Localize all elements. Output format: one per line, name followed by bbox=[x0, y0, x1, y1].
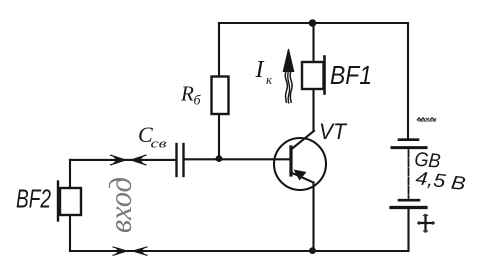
svg-text:BF1: BF1 bbox=[330, 60, 372, 90]
svg-text:VT: VT bbox=[319, 119, 347, 144]
svg-text:I: I bbox=[255, 57, 265, 83]
svg-text:б: б bbox=[194, 94, 202, 109]
svg-text:св: св bbox=[151, 136, 167, 151]
svg-text:BF2: BF2 bbox=[16, 184, 51, 214]
svg-text:R: R bbox=[180, 82, 194, 106]
svg-text:вход: вход bbox=[102, 177, 138, 233]
svg-text:к: к bbox=[266, 72, 273, 87]
